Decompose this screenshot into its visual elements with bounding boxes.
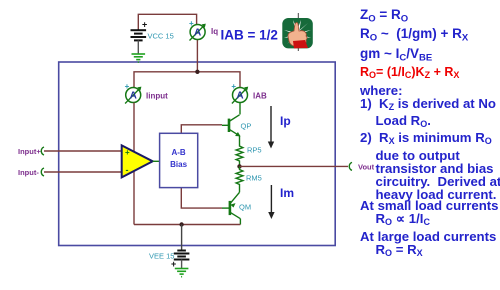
A-B Bias block [160, 133, 198, 187]
transistor QM [222, 192, 240, 224]
svg-text:A: A [130, 91, 137, 102]
thumbs-up icon [282, 13, 313, 51]
svg-text:-: - [126, 165, 129, 175]
wire base QP from bias box [181, 125, 222, 134]
svg-text:+: + [125, 148, 130, 157]
load current notes block [360, 199, 499, 261]
formulas block top right [360, 8, 468, 66]
node Vout junction dot [237, 164, 241, 168]
node junction dot top [195, 70, 199, 74]
wire down to VEE battery [181, 225, 183, 250]
svg-text:+: + [142, 20, 147, 30]
svg-text:VCC 15: VCC 15 [148, 32, 174, 41]
connector Input+ [41, 147, 44, 155]
svg-text:Bias: Bias [170, 160, 187, 169]
wire Input+ [44, 150, 122, 152]
svg-text:+: + [171, 259, 176, 269]
resistor RP5 [236, 145, 243, 167]
battery VCC 15 [131, 20, 148, 54]
ground (bottom, below VEE) [175, 269, 189, 277]
enclosure box [59, 62, 336, 246]
op-amp U1 [122, 145, 160, 177]
svg-text:RP5: RP5 [247, 146, 262, 155]
resistor RM5 [236, 166, 243, 192]
svg-text:A: A [236, 91, 243, 102]
numbered notes block [360, 84, 500, 202]
svg-text:IAB: IAB [253, 92, 267, 101]
svg-text:Input+: Input+ [18, 147, 41, 156]
wire base QM from bias box [181, 188, 222, 209]
wire top from VCC battery to Iq ammeter [138, 14, 196, 29]
svg-text:Iq: Iq [211, 27, 218, 36]
wire bottom rail [134, 224, 240, 226]
svg-text:+: + [231, 82, 236, 91]
ammeter Iinput [125, 82, 142, 104]
svg-text:VEE 15: VEE 15 [149, 252, 174, 261]
node junction dot bottom [179, 222, 183, 226]
battery VEE 15 [171, 251, 189, 270]
arrow Im [268, 185, 274, 219]
transistor QP [222, 115, 241, 145]
svg-text:+: + [125, 82, 130, 91]
ground (top, below VCC) [132, 54, 146, 62]
svg-text:Iinput: Iinput [146, 92, 168, 101]
wire Iq ammeter down to top node [196, 39, 198, 71]
wire Input- [44, 171, 122, 173]
connector Vout [349, 162, 352, 170]
wire top horizontal inside box [134, 72, 240, 103]
svg-text:A-B: A-B [171, 148, 185, 157]
svg-text:Ip: Ip [280, 114, 291, 128]
svg-text:+: + [189, 19, 194, 28]
hand [288, 23, 307, 48]
formula red Ro [360, 65, 459, 83]
ammeter Iq [189, 19, 206, 41]
svg-text:A: A [194, 28, 201, 39]
wire Vout to right [240, 165, 349, 167]
connector Input- [41, 168, 44, 176]
svg-text:QM: QM [239, 203, 251, 212]
svg-text:RM5: RM5 [246, 174, 262, 183]
svg-text:Im: Im [280, 186, 294, 200]
ammeter IAB [231, 82, 248, 104]
arrow Ip [268, 106, 274, 149]
svg-text:QP: QP [241, 122, 252, 131]
wire IAB down to QP collector [239, 103, 241, 115]
wire left vertical from Iinput down to bottom rail [133, 103, 135, 225]
svg-text:Input-: Input- [18, 168, 39, 177]
